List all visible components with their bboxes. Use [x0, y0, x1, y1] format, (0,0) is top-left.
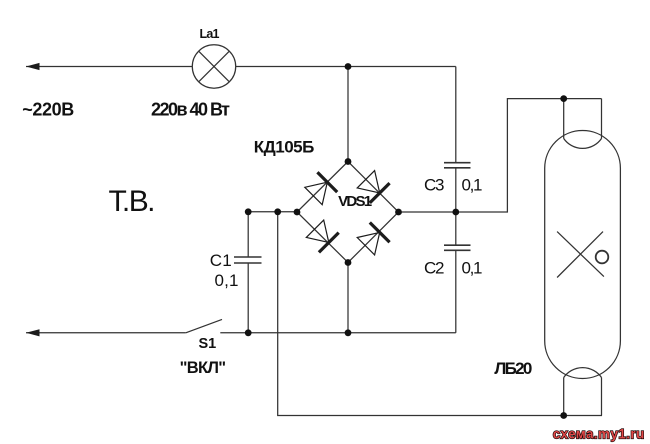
wire C column top [455, 67, 457, 163]
arrow left bottom [26, 329, 40, 336]
lamp tube ЛБ20 [545, 131, 621, 379]
wire bridge bottom drop [347, 263, 349, 333]
wire bridge top feed [347, 67, 349, 162]
svg-text:S1: S1 [199, 336, 217, 352]
node lamp bottom pin [560, 412, 567, 419]
node C column mid [452, 209, 459, 216]
svg-text:Т.В.: Т.В. [109, 185, 156, 218]
node C1 bottom [245, 329, 252, 336]
svg-text:"ВКЛ": "ВКЛ" [180, 359, 227, 377]
wire switch rail left [26, 332, 186, 334]
node bridge bottom [345, 259, 352, 266]
wire lamp top pins [563, 99, 565, 139]
node bridge bottom rail [345, 329, 352, 336]
svg-text:0,1: 0,1 [462, 176, 483, 195]
node lamp feed [345, 63, 352, 70]
capacitor C3 [444, 162, 471, 164]
node return top [274, 208, 281, 215]
svg-text:220в 40 Вт: 220в 40 Вт [151, 100, 230, 120]
wire bridge ring [297, 162, 399, 263]
svg-text:~220В: ~220В [22, 100, 74, 120]
wire lamp bottom pins [563, 378, 565, 416]
lamp small circle [596, 251, 609, 264]
lamp X mark [557, 232, 604, 277]
diode D4 (bottom to right) [356, 223, 390, 257]
diode D2 (top to right) [356, 169, 390, 203]
wire C2 down to switch rail [455, 251, 457, 333]
svg-text:0,1: 0,1 [215, 271, 239, 290]
svg-text:La1: La1 [200, 27, 220, 41]
node bridge left [294, 209, 301, 216]
wire switch rail right [220, 332, 455, 334]
switch S1 blade [186, 319, 222, 332]
wire left node to C1 branch [248, 211, 297, 213]
filament bottom arc [564, 368, 602, 378]
arrow left top [26, 63, 40, 70]
svg-text:0,1: 0,1 [462, 258, 483, 277]
svg-text:С3: С3 [424, 176, 445, 195]
wire top line left of lamp [26, 66, 193, 68]
node lamp top pin [560, 95, 567, 102]
wire C3 to C2 [455, 168, 457, 244]
diode D1 (left to top) [304, 172, 338, 206]
svg-text:С2: С2 [424, 258, 445, 277]
svg-text:С1: С1 [210, 251, 232, 270]
diode D3 (left to bottom) [305, 219, 339, 253]
wire return branch [278, 212, 602, 416]
svg-text:VDS1: VDS1 [338, 193, 372, 210]
node bridge top [345, 158, 352, 165]
capacitor C2 [444, 244, 471, 246]
lamp La1 [192, 45, 235, 88]
svg-text:КД105Б: КД105Б [254, 138, 314, 157]
wire C1 branch lower [247, 264, 249, 333]
wire C1 branch upper [247, 212, 249, 257]
wire right node to corner riser [399, 99, 602, 212]
node bridge right [395, 209, 402, 216]
node C1 top [245, 208, 252, 215]
svg-text:схема.my1.ru: схема.my1.ru [553, 427, 645, 442]
svg-text:ЛБ20: ЛБ20 [494, 359, 532, 378]
filament top arc [564, 139, 602, 149]
wire top line right of lamp [236, 66, 456, 68]
capacitor C1 [234, 256, 262, 258]
